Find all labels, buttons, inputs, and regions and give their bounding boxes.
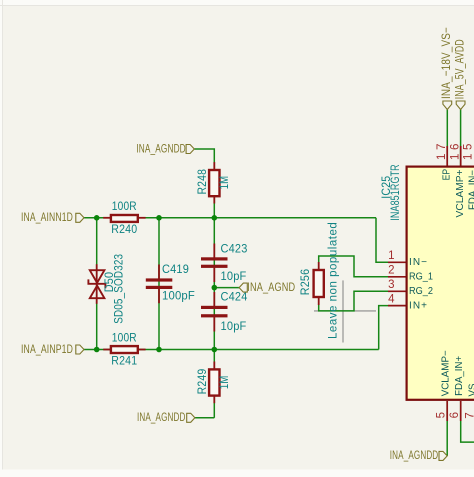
svg-text:Leave non populated: Leave non populated bbox=[328, 222, 340, 339]
pin 4 IN+ bbox=[388, 294, 427, 312]
hierarchical label INA_AINP1D bbox=[21, 344, 84, 356]
resistor R241 bbox=[103, 333, 145, 368]
wire pin5 to INA_AGNDD bottom-right bbox=[446, 401, 448, 456]
svg-text:1M: 1M bbox=[219, 176, 231, 190]
svg-text:R241: R241 bbox=[111, 356, 137, 368]
svg-text:C423: C423 bbox=[221, 244, 248, 256]
svg-text:INA_−18V_VS−: INA_−18V_VS− bbox=[441, 27, 453, 99]
svg-text:4: 4 bbox=[388, 294, 395, 306]
hierarchical label INA_AINN1D bbox=[21, 212, 84, 224]
wire C423/C424 branch bbox=[213, 218, 215, 350]
hierarchical label INA_5V_AVDD bbox=[454, 39, 466, 109]
svg-text:INA_AGND: INA_AGND bbox=[247, 282, 295, 294]
svg-text:R248: R248 bbox=[197, 169, 209, 195]
wire R249 branch bbox=[213, 350, 215, 418]
resistor R256 bbox=[300, 262, 324, 305]
svg-text:R249: R249 bbox=[197, 369, 209, 395]
pin 6 FDA_IN+ bbox=[449, 356, 465, 421]
svg-text:C424: C424 bbox=[221, 292, 248, 304]
wire INP rail bbox=[84, 349, 379, 351]
svg-text:INA851RGTR: INA851RGTR bbox=[390, 164, 402, 221]
resistor R240 bbox=[103, 201, 145, 236]
svg-text:IN+: IN+ bbox=[409, 300, 427, 311]
pin 3 RG_2 bbox=[388, 279, 433, 297]
svg-text:1M: 1M bbox=[219, 376, 231, 390]
wire R256 bottom to pin3 bbox=[319, 291, 388, 311]
wire INN rail bbox=[84, 217, 376, 219]
wire pin6 exit right bbox=[461, 401, 474, 442]
no-populate gray cross line horizontal bbox=[314, 310, 376, 312]
svg-text:1: 1 bbox=[388, 250, 394, 262]
wire INN to pin1 bbox=[376, 218, 388, 262]
svg-text:6: 6 bbox=[449, 412, 461, 418]
svg-text:C419: C419 bbox=[162, 264, 189, 276]
svg-text:INA_AINN1D: INA_AINN1D bbox=[21, 212, 73, 224]
hierarchical label INA_AGND mid bbox=[239, 282, 295, 294]
op-amp IC U IC25 INA851RGTR body bbox=[381, 164, 474, 400]
svg-text:FDA_IN+: FDA_IN+ bbox=[454, 356, 465, 396]
pin 5 VCLAMP- bbox=[435, 350, 451, 421]
wire INA_-18V_VS- to pin17 bbox=[446, 110, 448, 166]
pin 1 IN- bbox=[388, 250, 427, 268]
junction C423/C424/INA_AGND bbox=[212, 285, 218, 291]
svg-text:INA_5V_AVDD: INA_5V_AVDD bbox=[454, 39, 466, 99]
resistor R248 bbox=[197, 162, 231, 203]
svg-text:100pF: 100pF bbox=[162, 291, 195, 303]
svg-text:VS: VS bbox=[467, 383, 474, 396]
svg-text:100R: 100R bbox=[112, 201, 137, 213]
svg-text:IN−: IN− bbox=[409, 257, 427, 268]
wire R256 top to pin2 bbox=[319, 256, 388, 277]
svg-text:EP: EP bbox=[441, 169, 452, 181]
svg-text:INA_AGNDD: INA_AGNDD bbox=[136, 143, 186, 155]
svg-text:INA_AGNDD: INA_AGNDD bbox=[390, 450, 439, 462]
svg-text:VCLAMP+: VCLAMP+ bbox=[455, 169, 466, 217]
capacitor C419 bbox=[146, 264, 195, 303]
junction INP/C419 bbox=[156, 347, 162, 353]
svg-text:FDA_IN−: FDA_IN− bbox=[468, 170, 474, 210]
wire INA_5V_AVDD to pin16 bbox=[460, 110, 462, 166]
hierarchical label INA_AGNDD top bbox=[136, 143, 194, 155]
junction INN/D50 bbox=[94, 215, 100, 221]
svg-text:RG_2: RG_2 bbox=[409, 286, 433, 297]
junction INP/D50 bbox=[94, 347, 100, 353]
capacitor C423 bbox=[201, 244, 248, 284]
svg-text:2: 2 bbox=[388, 265, 394, 277]
pin 16 VCLAMP+ bbox=[449, 144, 465, 218]
junction INN/C419 bbox=[156, 215, 162, 221]
junction INP/C424/R249 bbox=[212, 347, 218, 353]
svg-text:7: 7 bbox=[464, 412, 474, 418]
hierarchical label INA_AGNDD bottom-right bbox=[390, 450, 447, 462]
svg-text:R256: R256 bbox=[300, 269, 312, 296]
pin 2 RG_1 bbox=[388, 265, 433, 283]
svg-text:R240: R240 bbox=[111, 224, 137, 236]
svg-text:10pF: 10pF bbox=[221, 321, 247, 333]
wire C419 branch bbox=[158, 218, 160, 350]
hierarchical label INA_AGNDD bottom-left bbox=[137, 412, 195, 424]
wire INA_AGNDD top to R248 bbox=[194, 149, 214, 218]
wire INA_AGNDD bottom-left label bbox=[195, 417, 214, 419]
svg-text:INA_AINP1D: INA_AINP1D bbox=[21, 344, 73, 356]
wire to INA_AGND mid label bbox=[214, 287, 239, 289]
no-populate gray cross line vertical bbox=[342, 280, 344, 342]
resistor R249 bbox=[197, 362, 231, 404]
TVS diode D50 bbox=[88, 254, 125, 324]
junction INN/R248/C423 bbox=[212, 215, 218, 221]
svg-text:INA_AGNDD: INA_AGNDD bbox=[137, 412, 186, 424]
svg-text:3: 3 bbox=[388, 279, 394, 291]
svg-text:SD05_SOD323: SD05_SOD323 bbox=[113, 254, 125, 324]
pin 17 EP bbox=[436, 144, 452, 181]
svg-text:5: 5 bbox=[435, 412, 447, 418]
wire INP to pin4 bbox=[379, 306, 388, 350]
wire D50 branch bbox=[96, 218, 98, 350]
svg-text:RG_1: RG_1 bbox=[409, 272, 433, 283]
svg-text:100R: 100R bbox=[112, 333, 137, 345]
svg-text:10pF: 10pF bbox=[221, 271, 247, 283]
svg-text:VCLAMP−: VCLAMP− bbox=[440, 350, 451, 396]
capacitor C424 bbox=[201, 292, 248, 334]
hierarchical label INA_-18V_VS- bbox=[441, 27, 453, 110]
